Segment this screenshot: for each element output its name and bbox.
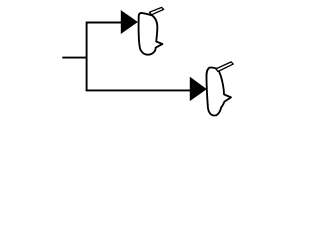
flag U1 (parallelogram tab) bbox=[150, 7, 164, 14]
arrowhead A1 (solid triangle into U1) bbox=[121, 11, 137, 33]
blob U1 body bbox=[139, 13, 163, 55]
arrowhead A2 (solid triangle into U2) bbox=[190, 78, 206, 101]
flag U2 (parallelogram tab) bbox=[216, 62, 233, 72]
blob U2 body bbox=[206, 68, 231, 116]
wire: top branch, vertical trunk and bottom branch bbox=[87, 23, 192, 91]
wire: left input stub bbox=[62, 57, 86, 59]
